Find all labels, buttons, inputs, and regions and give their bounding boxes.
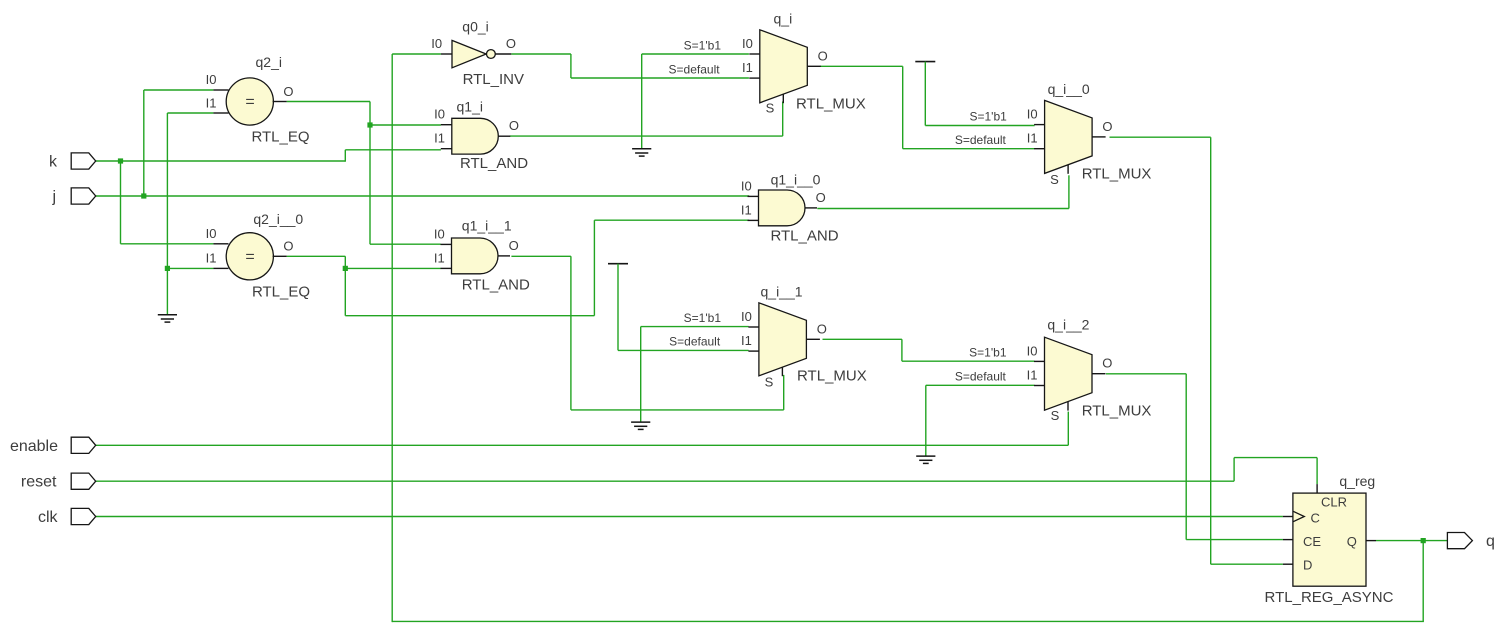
pin stub q_reg CLR [1316,484,1318,493]
wire q1_i O horizontal [510,135,783,137]
svg-text:reset: reset [21,474,57,491]
pin stub q_i__1 I1 [748,350,759,352]
pin stub q_i__1 I0 [748,326,759,328]
wire net j to q2_i I0 [144,89,214,91]
svg-text:O: O [1102,356,1112,371]
svg-text:RTL_MUX: RTL_MUX [797,368,867,385]
pin stub q1_i__0 I1 [748,219,759,221]
svg-text:RTL_EQ: RTL_EQ [251,129,309,146]
svg-text:CLR: CLR [1321,495,1347,510]
pin stub q0_i I0 [441,53,452,55]
svg-text:I1: I1 [741,333,752,348]
pin stub q0_i O [495,53,511,55]
svg-text:I1: I1 [741,202,752,217]
wire net const0 to q2_i I1 [167,112,213,114]
wire q2_i O horizontal [287,101,370,103]
svg-text:k: k [49,154,58,171]
svg-text:O: O [509,118,519,133]
pin stub q_i__1 S [781,367,783,376]
wire q_i O drop [902,66,904,148]
pin stub q1_i__0 O [805,207,817,209]
svg-text:S: S [1051,408,1060,423]
pin stub q_reg D [1283,563,1293,565]
mux q_i__0 RTL_MUX [1045,100,1093,173]
wire net reset horizontal [96,480,1234,482]
junction net j at j-wire [141,193,146,198]
wire q2_i O drop [369,102,371,245]
svg-text:S=1'b1: S=1'b1 [684,38,722,52]
wire net const T2 to q_i__1 I1 [618,349,749,351]
wire net k riser [344,150,346,162]
svg-text:q1_i: q1_i [457,99,483,115]
wire net enable to q_i__2 S [1067,412,1069,446]
svg-text:I1: I1 [434,131,445,146]
inverter q0_i bubble [487,50,496,59]
svg-text:j: j [51,189,56,206]
svg-text:RTL_MUX: RTL_MUX [1082,166,1152,183]
input port k [71,153,96,169]
comparator U q2_i RTL_EQ [226,78,273,125]
inverter q0_i RTL_INV [452,40,486,67]
svg-text:enable: enable [10,438,58,455]
mux q_i RTL_MUX [760,30,808,103]
wire q_i__2 O horizontal [1106,373,1186,375]
svg-text:O: O [509,238,519,253]
pin stub q_i I0 [749,53,760,55]
mux q_i__2 RTL_MUX [1045,337,1093,410]
wire q2_i O to q1_i I0 [370,124,441,126]
clock marker of q_reg [1293,511,1304,522]
svg-text:O: O [283,238,293,253]
output port q [1447,533,1472,549]
wire net q feedback riser [391,54,393,622]
svg-text:q_reg: q_reg [1339,473,1375,489]
and gate q1_i__0 RTL_AND [759,190,805,226]
power T-bar T2 above q_i__1 [608,263,628,265]
ground G1 below q2_i__0 [158,315,177,322]
svg-text:RTL_EQ: RTL_EQ [252,284,310,301]
input port j [71,188,96,204]
svg-text:RTL_INV: RTL_INV [463,71,524,88]
svg-text:I1: I1 [1027,368,1038,383]
wire net gnd2 vertical [641,54,643,149]
pin stub q1_i__0 I0 [748,195,759,197]
svg-text:O: O [506,36,516,51]
wire net reset to q_reg CLR [1316,458,1318,485]
svg-text:I0: I0 [742,36,753,51]
svg-text:O: O [1102,119,1112,134]
pin stub q1_i O [498,135,510,137]
pin stub q2_i__0 I0 [213,243,228,245]
pin stub q_i__0 I0 [1034,124,1045,126]
pin stub q_i__2 I1 [1034,385,1045,387]
svg-text:q_i__2: q_i__2 [1047,317,1089,333]
wire net gnd3 vertical [640,327,642,423]
wire net q drop [1422,541,1424,622]
svg-text:RTL_AND: RTL_AND [770,228,838,245]
pin stub q2_i I0 [213,89,228,91]
svg-text:I1: I1 [742,60,753,75]
svg-text:q0_i: q0_i [462,19,488,35]
junction net const0 tap [165,266,170,271]
wire q2_i__0 O to q1_i__1 I1 [345,267,440,269]
svg-text:S: S [765,375,774,390]
svg-text:S: S [766,101,775,116]
wire q_i__1 O drop [901,339,903,361]
pin stub q2_i__0 I1 [213,267,228,269]
svg-text:S=1'b1: S=1'b1 [684,311,722,325]
wire net const T1 to q_i__0 I0 [925,125,1034,127]
wire net q to output port [1376,540,1447,542]
junction net k at k-wire [118,158,123,163]
pin stub q2_i I1 [213,112,228,114]
svg-text:q1_i__1: q1_i__1 [462,218,512,234]
power T-bar T1 above q_i__0 [915,61,935,63]
wire q_i__0 O long drop [1210,137,1212,564]
svg-text:q_i__1: q_i__1 [761,284,803,300]
svg-text:clk: clk [38,509,59,526]
wire q1_i__0 O to q_i__0 S [1068,175,1070,208]
pin stub q_i__2 O [1092,373,1106,375]
wire q_i O to q_i__0 I1 [903,148,1035,150]
wire net gnd3 to q_i__1 I0 [641,326,749,328]
wire q1_i O to q_i S [782,102,784,137]
input port enable [71,437,96,453]
svg-text:q2_i__0: q2_i__0 [253,211,303,227]
pin stub q_i__2 I0 [1034,360,1045,362]
svg-text:=: = [245,94,254,111]
wire net j riser [143,90,145,197]
wire net const0 vertical [166,113,168,315]
wire net q bottom run [392,620,1424,622]
svg-text:S=default: S=default [955,133,1007,147]
svg-text:D: D [1303,558,1312,573]
ground G2 below q_i [632,149,651,156]
wire net const0 to q2_i__0 I1 [167,267,213,269]
pin stub q_i__0 S [1067,165,1069,174]
svg-text:q: q [1486,533,1495,550]
pin stub q1_i I0 [441,124,452,126]
input port reset [71,473,96,489]
wire q_i__2 O to q_reg CE [1186,539,1283,541]
pin stub q1_i__1 I1 [441,267,452,269]
wire q_i O horizontal [820,65,903,67]
svg-text:q_i__0: q_i__0 [1048,81,1090,97]
wire net j horizontal [96,195,750,197]
svg-text:I0: I0 [434,107,445,122]
wire net const T2 vertical [617,264,619,351]
pin stub q_i__0 O [1092,136,1106,138]
wire net const T1 vertical [924,62,926,126]
wire q1_i__1 O horizontal [511,255,571,257]
svg-text:=: = [245,248,254,265]
svg-text:Q: Q [1347,534,1357,549]
svg-text:I0: I0 [206,72,217,87]
pin stub q1_i__1 I0 [441,243,452,245]
svg-text:O: O [816,190,826,205]
svg-text:I1: I1 [206,250,217,265]
wire q2_i__0 O drop [344,256,346,315]
pin stub q_reg CE [1283,539,1293,541]
wire net reset riser [1233,458,1235,482]
pin stub q_i__1 O [806,338,820,340]
wire net k to q1_i I1 [345,149,441,151]
svg-text:q2_i: q2_i [256,54,282,70]
wire q0_i O to q_i I1 [571,77,749,79]
svg-text:I1: I1 [434,250,445,265]
wire q2_i__0 O to q1_i__0 I1 [594,219,749,221]
svg-text:RTL_MUX: RTL_MUX [796,96,866,113]
wire q_i__0 O to q_reg D [1211,563,1283,565]
svg-text:I0: I0 [1027,107,1038,122]
ground G4 below q_i__2 [916,456,935,463]
wire net gnd4 vertical [925,385,927,456]
svg-text:S=default: S=default [955,369,1007,383]
svg-text:I0: I0 [431,36,442,51]
svg-text:q1_i__0: q1_i__0 [771,171,821,187]
svg-text:S=1'b1: S=1'b1 [969,345,1007,359]
wire net k to q2_i__0 I0 [121,243,214,245]
svg-text:RTL_AND: RTL_AND [462,277,530,294]
pin stub q_i I1 [749,77,760,79]
wire q1_i__0 O horizontal [817,208,1069,210]
and gate q1_i__1 RTL_AND [452,238,498,274]
svg-text:S=1'b1: S=1'b1 [969,110,1007,124]
ground G3 below q_i__1 [631,422,650,429]
junction net q at Q output [1421,538,1426,543]
svg-text:C: C [1311,511,1320,526]
svg-text:RTL_AND: RTL_AND [460,155,528,172]
input port clk [71,508,96,524]
wire q1_i__1 O run [571,409,784,411]
svg-text:S=default: S=default [669,63,721,77]
svg-text:I1: I1 [206,96,217,111]
svg-text:I0: I0 [741,309,752,324]
junction q2_i__0 O tap [343,266,348,271]
wire q0_i O drop [570,54,572,78]
svg-text:CE: CE [1303,534,1321,549]
wire net k horizontal [96,160,346,162]
wire net k drop [120,161,122,244]
pin stub q_reg C [1283,516,1293,518]
svg-text:I0: I0 [1027,343,1038,358]
pin stub q_i O [807,65,821,67]
svg-text:I0: I0 [434,226,445,241]
svg-text:RTL_REG_ASYNC: RTL_REG_ASYNC [1265,589,1394,606]
svg-text:I1: I1 [1027,131,1038,146]
wire net clk horizontal [96,516,1283,518]
wire q_i__1 O to q_i__2 I0 [902,360,1035,362]
pin stub q1_i I1 [441,148,452,150]
wire q_i__0 O horizontal [1110,136,1211,138]
wire net gnd2 to q_i I0 [642,53,749,55]
pin stub q_i__0 I1 [1034,148,1045,150]
wire net gnd4 to q_i__2 I1 [926,384,1035,386]
wire q0_i O horizontal [511,53,571,55]
junction q2_i O tap [367,122,372,127]
svg-text:S: S [1050,172,1059,187]
wire q2_i__0 O riser [593,220,595,316]
svg-text:I0: I0 [741,178,752,193]
svg-text:RTL_MUX: RTL_MUX [1082,403,1152,420]
pin stub q2_i O [273,101,287,103]
pin stub q_i__2 S [1067,402,1069,411]
pin stub q_reg Q [1366,540,1376,542]
wire q2_i O to q1_i__1 I0 [370,243,441,245]
svg-text:I0: I0 [206,226,217,241]
wire q_i__2 O drop [1185,374,1187,540]
wire net q to q0_i I0 [392,53,441,55]
wire net enable horizontal [96,444,1069,446]
wire q1_i__1 O to q_i__1 S [783,375,785,410]
pin stub q_i S [782,94,784,103]
svg-text:O: O [818,48,828,63]
wire q2_i__0 O horizontal [287,255,346,257]
svg-text:S=default: S=default [669,335,721,349]
register q_reg RTL_REG_ASYNC [1293,493,1366,586]
wire net reset run [1234,457,1317,459]
pin stub q2_i__0 O [273,255,287,257]
svg-text:O: O [817,321,827,336]
mux q_i__1 RTL_MUX [759,303,807,376]
pin stub q1_i__1 O [498,255,510,257]
wire q_i__1 O horizontal [823,338,902,340]
wire q1_i__1 O drop [570,256,572,410]
comparator U q2_i__0 RTL_EQ [226,233,273,280]
svg-text:O: O [283,84,293,99]
wire q2_i__0 O run [345,315,594,317]
and gate q1_i RTL_AND [452,118,499,154]
svg-text:q_i: q_i [774,11,793,27]
